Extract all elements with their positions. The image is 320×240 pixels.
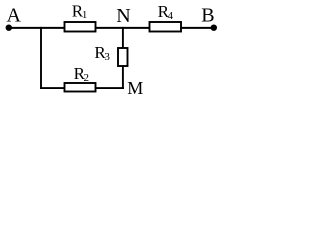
svg-text:B: B	[201, 5, 214, 27]
resistor R3	[118, 48, 128, 66]
resistor R1	[65, 22, 96, 32]
node B terminal dot	[211, 25, 217, 31]
svg-text:A: A	[7, 5, 22, 27]
wire N branch vertical	[122, 27, 124, 89]
node A terminal dot	[6, 25, 12, 31]
wire A to B (top rail)	[8, 27, 214, 29]
wire bottom rail	[40, 87, 124, 89]
svg-text:N: N	[116, 5, 130, 27]
wire left branch vertical	[40, 27, 42, 89]
resistor R4	[150, 22, 182, 32]
svg-text:M: M	[127, 78, 143, 98]
resistor R2	[65, 83, 96, 92]
